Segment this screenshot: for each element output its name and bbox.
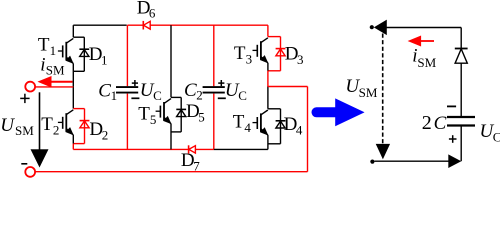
svg-text:T: T [41, 114, 53, 135]
svg-text:2: 2 [422, 112, 432, 134]
svg-text:4: 4 [296, 123, 303, 138]
svg-text:C: C [98, 81, 111, 102]
svg-text:T: T [38, 34, 50, 55]
svg-text:C: C [238, 88, 247, 103]
svg-text:5: 5 [150, 112, 157, 127]
svg-text:3: 3 [246, 52, 253, 67]
svg-text:SM: SM [359, 85, 378, 100]
svg-text:T: T [233, 111, 245, 132]
svg-text:SM: SM [417, 55, 436, 70]
svg-text:2: 2 [102, 127, 109, 142]
svg-text:6: 6 [149, 6, 156, 21]
svg-text:T: T [234, 43, 246, 64]
svg-text:2: 2 [196, 88, 203, 103]
svg-text:C: C [153, 88, 162, 103]
svg-text:C: C [184, 80, 197, 101]
svg-text:U: U [0, 115, 15, 136]
svg-text:SM: SM [46, 63, 65, 78]
svg-text:5: 5 [198, 110, 205, 125]
svg-text:T: T [138, 103, 150, 124]
svg-text:3: 3 [297, 52, 304, 67]
svg-text:1: 1 [50, 43, 57, 58]
svg-text:2: 2 [53, 122, 60, 137]
svg-text:C: C [493, 129, 500, 144]
svg-text:7: 7 [193, 159, 200, 174]
svg-text:1: 1 [111, 88, 118, 103]
svg-text:C: C [434, 113, 447, 134]
svg-text:SM: SM [15, 123, 34, 138]
svg-text:1: 1 [101, 53, 108, 68]
svg-text:4: 4 [244, 120, 251, 135]
svg-text:i: i [40, 55, 45, 76]
